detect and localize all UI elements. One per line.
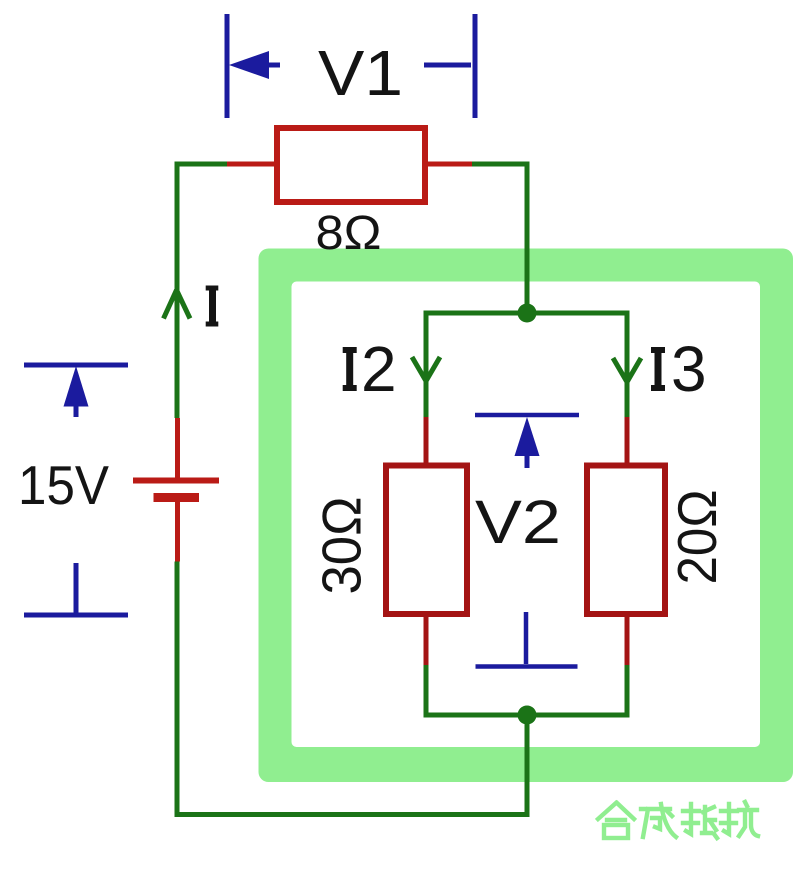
V2 indicator: top bar xyxy=(475,413,579,418)
wire: left arm upper stub (dark red) xyxy=(424,417,429,466)
wire: parallel section bottom rail xyxy=(424,713,630,718)
V1 indicator: left terminal bar xyxy=(225,14,230,118)
V1 indicator: arrow (points left) xyxy=(262,63,280,68)
node: bottom junction dot xyxy=(518,706,537,725)
svg-text:20Ω: 20Ω xyxy=(666,490,728,585)
15V indicator: bottom tick xyxy=(74,563,79,613)
battery bottom lead xyxy=(175,502,180,562)
svg-text:2: 2 xyxy=(361,333,397,405)
kanji GO xyxy=(598,803,634,820)
svg-text:15V: 15V xyxy=(18,454,109,516)
wire: right arm upper stub (dark red) xyxy=(625,417,630,466)
kanji TEI xyxy=(683,804,717,838)
V1 indicator: right terminal bar xyxy=(473,14,478,118)
wire stub (red) left of R1 xyxy=(227,162,277,167)
kanji KOU xyxy=(721,802,758,836)
battery short plate xyxy=(154,493,200,502)
kanji SEI xyxy=(641,804,676,837)
battery long plate xyxy=(133,478,219,484)
wire: left arm upper (green) xyxy=(424,313,429,417)
current arrow I2 (chevron down on left arm) xyxy=(412,357,440,381)
wire: right arm lower (green) xyxy=(625,665,630,715)
svg-text:V1: V1 xyxy=(318,37,403,109)
V1 indicator: right tick xyxy=(424,63,471,68)
wire: top-left from battery up and right to R1 xyxy=(177,164,227,418)
resistor R3 20ohm xyxy=(587,466,665,615)
svg-text:8Ω: 8Ω xyxy=(316,207,382,260)
svg-text:30Ω: 30Ω xyxy=(311,497,373,595)
15V indicator: up arrow xyxy=(64,366,89,407)
V2 indicator: up arrow xyxy=(515,417,540,456)
wire: right arm upper (green) xyxy=(625,313,630,417)
wire: battery bottom, left side down, along bottom, up to bottom node xyxy=(177,562,527,815)
battery E 15V: top lead xyxy=(175,418,180,478)
svg-text:V2: V2 xyxy=(475,488,561,556)
wire: parallel section top rail xyxy=(424,311,630,316)
current arrow I (chevron up on left wire) xyxy=(164,290,191,319)
wire: left arm lower stub (dark red) xyxy=(424,614,429,665)
green highlight box (combined-resistance frame) xyxy=(259,249,794,783)
svg-text:3: 3 xyxy=(671,333,707,405)
wire: left arm lower (green) xyxy=(424,665,429,715)
wire: R1 right to top of parallel node xyxy=(472,164,527,313)
current arrow I3 (chevron down on right arm) xyxy=(613,358,641,382)
resistor R2 30ohm xyxy=(386,466,467,615)
label I3 xyxy=(651,347,665,391)
wire: right arm lower stub (dark red) xyxy=(625,614,630,665)
wire stub (red) right of R1 xyxy=(425,162,472,167)
label I2 xyxy=(343,347,357,391)
node: top junction dot xyxy=(518,304,537,323)
V2 indicator: bottom tick xyxy=(524,612,529,664)
label gosei-teikou (combined resistance) hand-drawn kanji xyxy=(598,802,758,838)
label I xyxy=(206,286,219,327)
resistor R1 8ohm xyxy=(277,128,425,202)
15V indicator: top bar xyxy=(24,363,128,368)
